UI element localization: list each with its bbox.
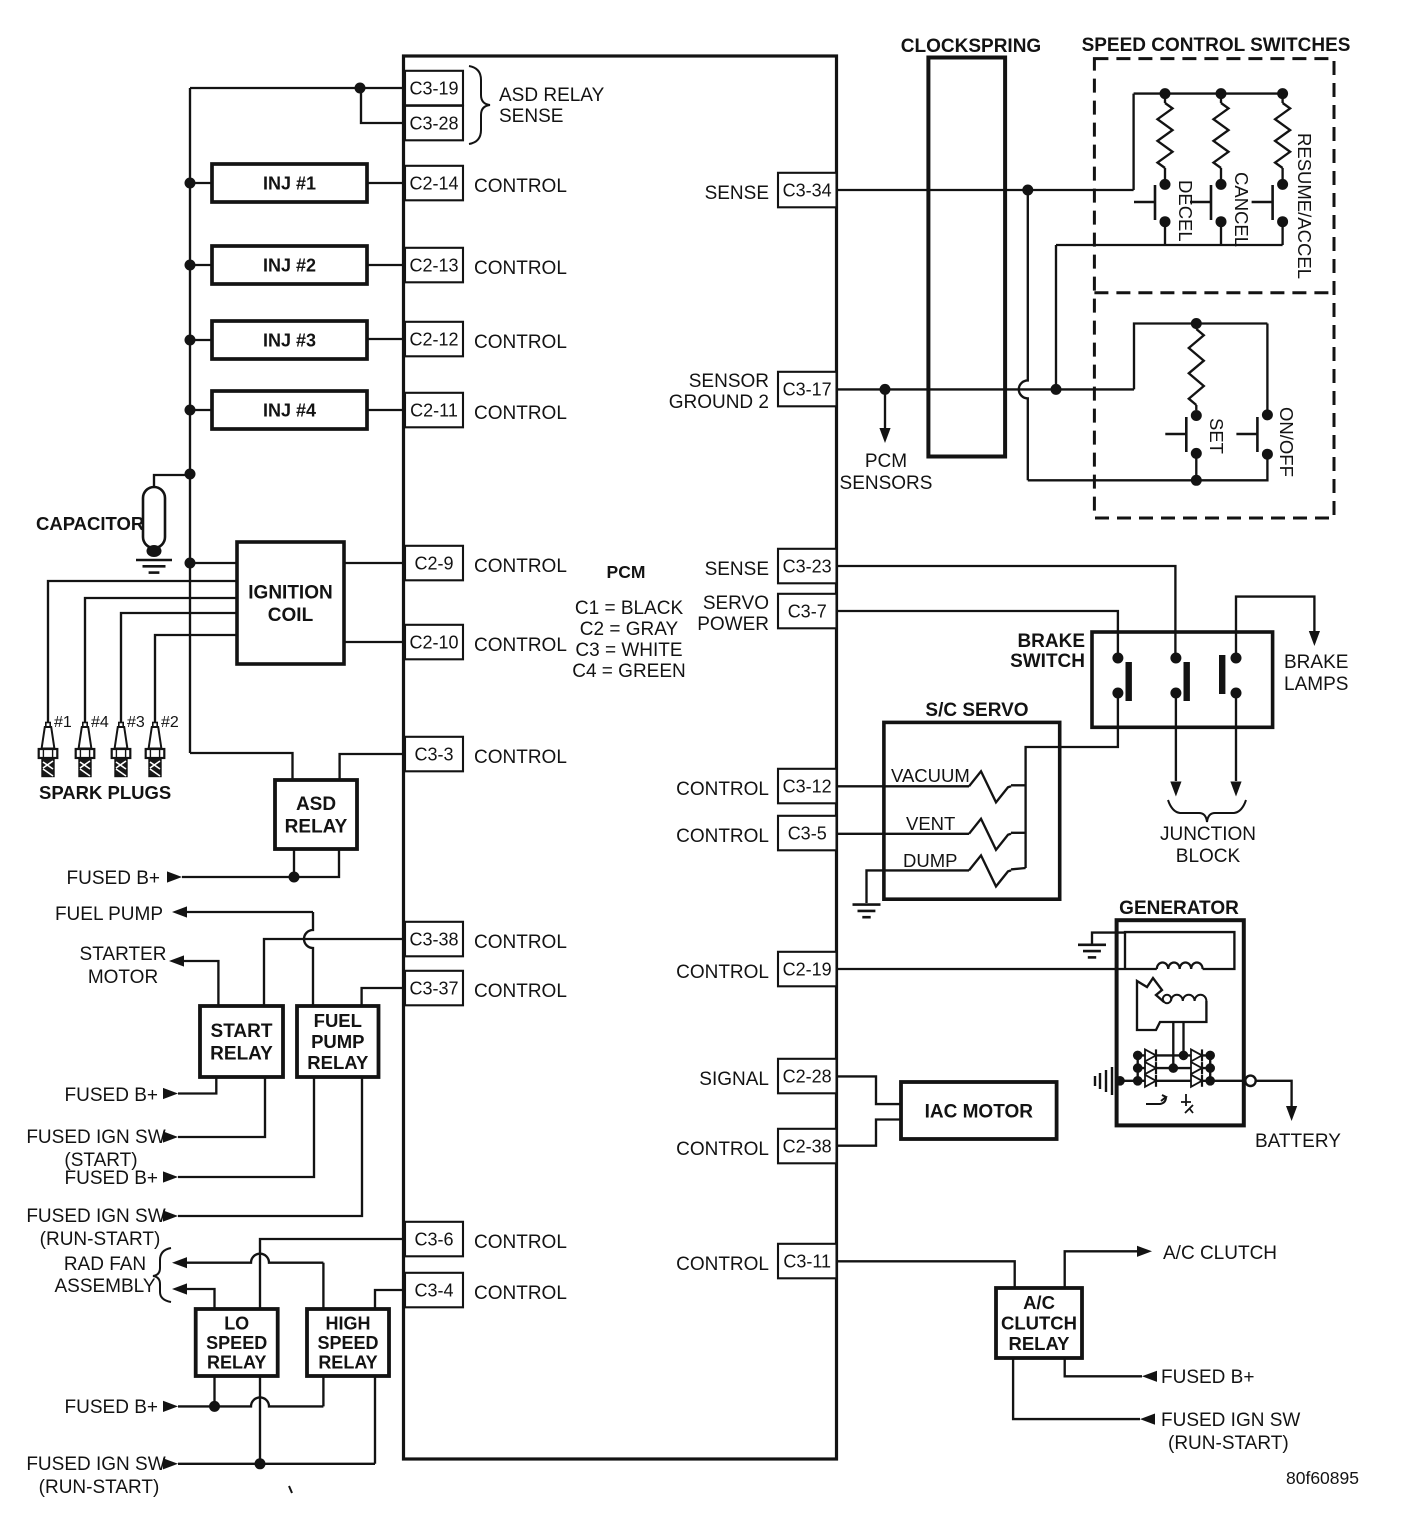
solenoid VENT winding bbox=[969, 819, 1011, 850]
wire DECEL to bottom rail bbox=[1164, 222, 1166, 245]
svg-text:POWER: POWER bbox=[697, 614, 769, 635]
pin C3-7 bbox=[778, 594, 837, 629]
svg-text:MOTOR: MOTOR bbox=[88, 967, 158, 988]
svg-text:C3-19: C3-19 bbox=[409, 78, 458, 98]
svg-text:RAD FAN: RAD FAN bbox=[64, 1254, 146, 1275]
arrow fused B+ A/C relay bbox=[1142, 1371, 1157, 1382]
node DECEL switch bottom bbox=[1160, 216, 1171, 227]
svg-text:STARTER: STARTER bbox=[80, 944, 167, 965]
brake switch pole 1 bbox=[1112, 653, 1132, 702]
wire INJ #2 to pin bbox=[367, 264, 405, 266]
wire fused ign sw run-start feed lower bbox=[178, 1463, 375, 1465]
brush symbol bbox=[1181, 1094, 1193, 1113]
label STARTER MOTOR bbox=[80, 944, 167, 988]
svg-text:FUEL: FUEL bbox=[314, 1010, 362, 1031]
node bus tap for INJ #2 bbox=[185, 260, 196, 271]
relay FUEL PUMP bbox=[297, 1006, 379, 1077]
injector INJ #3 bbox=[212, 321, 367, 359]
wire fused B+ to start relay bbox=[178, 1077, 216, 1094]
wire lo speed relay to fused B+ bbox=[213, 1376, 215, 1406]
svg-text:SENSOR: SENSOR bbox=[689, 371, 769, 392]
svg-text:SPEED: SPEED bbox=[206, 1333, 267, 1353]
label BRAKE LAMPS bbox=[1284, 652, 1348, 695]
svg-text:SPARK PLUGS: SPARK PLUGS bbox=[39, 782, 171, 803]
node sense branch bbox=[1022, 185, 1033, 196]
pin C3-19 bbox=[405, 71, 463, 106]
arrow to battery bbox=[1286, 1106, 1297, 1121]
svg-text:C2-19: C2-19 bbox=[783, 959, 832, 979]
wire brake switch pole1 to servo rail bbox=[1026, 693, 1118, 868]
pin C3-38 bbox=[405, 922, 463, 957]
svg-text:FUSED IGN SW: FUSED IGN SW bbox=[26, 1454, 165, 1475]
svg-text:CONTROL: CONTROL bbox=[474, 176, 567, 197]
wire coil tower to spark plug #3 bbox=[121, 613, 237, 722]
svg-text:SENSORS: SENSORS bbox=[840, 473, 933, 494]
spark plug #1 bbox=[39, 723, 58, 777]
svg-text:C3-17: C3-17 bbox=[783, 379, 832, 399]
svg-text:C2-14: C2-14 bbox=[409, 173, 458, 193]
relay A/C CLUTCH bbox=[996, 1288, 1082, 1358]
wire regulator to bridge row2 bbox=[1172, 1022, 1174, 1068]
svg-text:FUSED IGN SW: FUSED IGN SW bbox=[26, 1206, 165, 1227]
node bus tap for INJ #3 bbox=[185, 335, 196, 346]
wire resistor top rail bbox=[1134, 92, 1283, 94]
nodes rectifier bridge bbox=[1115, 1051, 1215, 1086]
svg-text:C2-28: C2-28 bbox=[783, 1066, 832, 1086]
node cancel rail tap bbox=[1216, 88, 1227, 99]
label FUSED IGN SW (RUN-START) bbox=[1161, 1410, 1300, 1454]
wire C3-37 to fuel pump relay bbox=[362, 988, 405, 1006]
svg-text:80f60895: 80f60895 bbox=[1286, 1468, 1359, 1488]
svg-text:SWITCH: SWITCH bbox=[1010, 651, 1085, 672]
svg-text:SERVO: SERVO bbox=[703, 593, 769, 614]
wire sense drop to set/onoff rail bbox=[1019, 190, 1028, 480]
label RAD FAN ASSEMBLY bbox=[54, 1254, 155, 1297]
wire relay to A/C clutch output bbox=[1065, 1251, 1137, 1288]
wire C3-3 to ASD relay bbox=[340, 754, 405, 780]
node decel rail tap bbox=[1160, 88, 1171, 99]
svg-text:C3-6: C3-6 bbox=[414, 1229, 453, 1249]
svg-text:CONTROL: CONTROL bbox=[474, 332, 567, 353]
node SET resistor bottom bbox=[1191, 410, 1202, 421]
arrow fused B+ feed bbox=[167, 871, 182, 882]
solenoid DUMP winding bbox=[969, 855, 1011, 886]
arrow A/C clutch output bbox=[1137, 1246, 1152, 1257]
wire bus to INJ #2 bbox=[190, 264, 212, 266]
svg-text:CONTROL: CONTROL bbox=[676, 779, 769, 800]
wire C2-28 to IAC motor bbox=[837, 1076, 902, 1104]
wire C3-12 to vacuum solenoid bbox=[837, 785, 970, 787]
svg-text:BATTERY: BATTERY bbox=[1255, 1131, 1341, 1152]
spark plug #2 bbox=[146, 723, 165, 777]
svg-text:SPEED: SPEED bbox=[317, 1333, 378, 1353]
diode pair row 2 bbox=[1145, 1062, 1202, 1074]
spark plug #3 bbox=[112, 723, 131, 777]
wire bus to INJ #3 bbox=[190, 339, 212, 341]
wire to on/off switch top bbox=[1266, 324, 1268, 415]
pin C2-11 bbox=[405, 393, 463, 428]
wire rail to on/off switch bbox=[1196, 454, 1267, 480]
svg-text:#3: #3 bbox=[127, 714, 145, 731]
voltage regulator bbox=[1137, 978, 1164, 1013]
svg-text:C2-12: C2-12 bbox=[409, 329, 458, 349]
wire ASD relay second leg bbox=[294, 849, 339, 877]
node decel bottom rail junction bbox=[1051, 384, 1062, 395]
svg-text:CLOCKSPRING: CLOCKSPRING bbox=[901, 36, 1041, 57]
svg-text:PCM: PCM bbox=[607, 562, 646, 582]
svg-text:BLOCK: BLOCK bbox=[1176, 846, 1241, 867]
wire C2-38 to IAC motor bbox=[837, 1120, 902, 1146]
svg-text:RELAY: RELAY bbox=[285, 817, 348, 838]
svg-text:CONTROL: CONTROL bbox=[474, 635, 567, 656]
wire CANCEL to bottom rail bbox=[1220, 222, 1222, 245]
wire relay to fused B+ bbox=[1065, 1358, 1142, 1376]
svg-text:A/C: A/C bbox=[1023, 1292, 1055, 1313]
svg-text:(RUN-START): (RUN-START) bbox=[1168, 1433, 1289, 1454]
svg-text:DECEL: DECEL bbox=[1175, 180, 1196, 242]
node DECEL resistor bottom bbox=[1160, 179, 1171, 190]
wire fused B+ to fuel pump relay bbox=[178, 1077, 314, 1177]
wire relay to fused ign sw bbox=[1013, 1358, 1140, 1419]
arrow fused ign sw A/C relay bbox=[1140, 1414, 1155, 1425]
svg-text:INJ #2: INJ #2 bbox=[263, 256, 316, 276]
wire coil tower to spark plug #2 bbox=[155, 635, 237, 722]
arrow to brake lamps bbox=[1309, 631, 1320, 646]
wire riser to decel/cancel/resume bottoms bbox=[1055, 245, 1057, 389]
svg-text:ASSEMBLY: ASSEMBLY bbox=[54, 1276, 155, 1297]
pin C2-28 bbox=[778, 1059, 837, 1094]
svg-text:SENSE: SENSE bbox=[499, 106, 563, 127]
wire bus to INJ #4 bbox=[190, 409, 212, 411]
svg-text:RELAY: RELAY bbox=[210, 1044, 273, 1065]
node junction at C3-19 branch bbox=[355, 83, 366, 94]
pin C3-5 bbox=[778, 816, 837, 851]
svg-text:SENSE: SENSE bbox=[705, 559, 769, 580]
wire decel/cancel/resume bottom rail bbox=[1056, 244, 1283, 246]
svg-text:SENSE: SENSE bbox=[705, 183, 769, 204]
wire INJ #4 to pin bbox=[367, 409, 405, 411]
svg-text:CONTROL: CONTROL bbox=[474, 981, 567, 1002]
wire ASD relay to fused B+ node bbox=[293, 849, 295, 877]
svg-text:C3-5: C3-5 bbox=[788, 823, 827, 843]
svg-text:CAPACITOR: CAPACITOR bbox=[36, 513, 144, 534]
wire C3-23 sense to brake switch bbox=[837, 566, 1176, 658]
node bus tap for INJ #4 bbox=[185, 405, 196, 416]
svg-text:RELAY: RELAY bbox=[1008, 1333, 1070, 1354]
pin C2-10 bbox=[405, 625, 463, 660]
wire rad fan output lower bbox=[187, 1289, 215, 1309]
wire coil tower to spark plug #4 bbox=[85, 598, 237, 722]
wire starter motor output bbox=[184, 961, 218, 1006]
svg-text:LO: LO bbox=[224, 1314, 249, 1334]
wire fused ign sw start to start relay bbox=[178, 1077, 265, 1137]
svg-text:PUMP: PUMP bbox=[311, 1031, 364, 1052]
wire bus to INJ #1 bbox=[190, 182, 212, 184]
resistor CANCEL bbox=[1220, 94, 1222, 103]
svg-text:C3-28: C3-28 bbox=[409, 113, 458, 133]
capacitor C1 bbox=[143, 487, 165, 557]
wire ASD sense feed to C3-19 bbox=[190, 87, 405, 89]
svg-text:C3-12: C3-12 bbox=[783, 776, 832, 796]
node RESUME/ACCEL resistor bottom bbox=[1277, 179, 1288, 190]
arrow fused B+ lower bbox=[163, 1401, 178, 1412]
pin C3-17 bbox=[778, 372, 837, 407]
svg-text:VACUUM: VACUUM bbox=[891, 765, 970, 786]
node ON/OFF top bbox=[1262, 409, 1273, 420]
svg-text:INJ #4: INJ #4 bbox=[263, 401, 316, 421]
svg-text:SIGNAL: SIGNAL bbox=[699, 1069, 769, 1090]
label JUNCTION BLOCK bbox=[1160, 824, 1256, 867]
injector INJ #4 bbox=[212, 391, 367, 429]
svg-text:GENERATOR: GENERATOR bbox=[1119, 898, 1239, 919]
label FUSED IGN SW (START) bbox=[26, 1127, 165, 1171]
svg-text:GROUND 2: GROUND 2 bbox=[669, 392, 769, 413]
resistor RESUME/ACCEL bbox=[1281, 94, 1283, 103]
generator output terminal bbox=[1245, 1076, 1255, 1086]
wire C3-34 sense to switches bbox=[837, 189, 1134, 191]
svg-text:C3-11: C3-11 bbox=[783, 1251, 831, 1271]
pin C3-6 bbox=[405, 1222, 463, 1257]
arrow fused ign sw lower bbox=[163, 1458, 178, 1469]
svg-text:CONTROL: CONTROL bbox=[474, 747, 567, 768]
node set switch rail junction bbox=[1191, 475, 1202, 486]
node bus tap for INJ #1 bbox=[185, 178, 196, 189]
pin C2-38 bbox=[778, 1129, 837, 1164]
switch CANCEL bbox=[1190, 185, 1211, 220]
pin C3-12 bbox=[778, 769, 837, 804]
wire C3-5 to vent solenoid bbox=[837, 833, 970, 835]
wire C3-6 to lo speed relay bbox=[260, 1239, 405, 1309]
wire branch to C3-28 bbox=[361, 88, 405, 123]
svg-text:C3-37: C3-37 bbox=[409, 978, 458, 998]
wire dump solenoid to ground bbox=[867, 870, 970, 903]
svg-text:ASD: ASD bbox=[296, 794, 336, 815]
svg-text:START: START bbox=[211, 1021, 273, 1042]
arrow junction block 1 bbox=[1170, 782, 1181, 797]
label FUSED IGN SW (RUN-START) bbox=[26, 1454, 165, 1498]
switch ON/OFF bbox=[1236, 417, 1257, 452]
inductor field coil bbox=[1157, 962, 1203, 969]
node PCM sensors tap bbox=[880, 384, 891, 395]
svg-text:#2: #2 bbox=[161, 714, 179, 731]
svg-text:C2-10: C2-10 bbox=[409, 632, 458, 652]
node CANCEL resistor bottom bbox=[1216, 179, 1227, 190]
brake switch pole 3 bbox=[1219, 653, 1242, 699]
speed control switches divider bbox=[1094, 291, 1334, 294]
relay ASD bbox=[275, 780, 357, 849]
arrow fuel pump output bbox=[172, 906, 187, 917]
svg-text:FUSED IGN SW: FUSED IGN SW bbox=[1161, 1410, 1300, 1431]
svg-text:CONTROL: CONTROL bbox=[474, 556, 567, 577]
svg-text:ON/OFF: ON/OFF bbox=[1276, 407, 1297, 477]
svg-text:CONTROL: CONTROL bbox=[474, 932, 567, 953]
pin C2-19 bbox=[778, 952, 837, 987]
wire sensor ground riser to set resistor bbox=[1134, 324, 1267, 390]
svg-text:FUSED B+: FUSED B+ bbox=[65, 1168, 158, 1189]
pin C2-12 bbox=[405, 322, 463, 357]
svg-text:CONTROL: CONTROL bbox=[474, 1232, 567, 1253]
wire generator ground bbox=[1092, 933, 1125, 945]
rectifier bridge rails bbox=[1117, 1055, 1211, 1080]
wire capacitor to bus bbox=[154, 475, 190, 489]
svg-text:BRAKE: BRAKE bbox=[1017, 631, 1085, 652]
wire C3-7 servo power to brake switch bbox=[837, 611, 1118, 658]
svg-text:FUSED B+: FUSED B+ bbox=[67, 868, 160, 889]
S/C servo box bbox=[884, 722, 1060, 899]
svg-text:INJ #1: INJ #1 bbox=[263, 174, 316, 194]
brake switch pole 2 bbox=[1170, 653, 1190, 702]
svg-text:FUSED B+: FUSED B+ bbox=[1161, 1367, 1254, 1388]
pin C3-11 bbox=[778, 1244, 837, 1279]
wire rad fan output upper bbox=[187, 1254, 323, 1263]
svg-text:RESUME/ACCEL: RESUME/ACCEL bbox=[1294, 133, 1315, 279]
brake switch box bbox=[1092, 632, 1273, 727]
wire terminal to battery bbox=[1256, 1081, 1292, 1106]
arrow rad fan lower bbox=[172, 1283, 187, 1294]
wire C2-19 to field winding bbox=[837, 968, 1126, 970]
pin C3-37 bbox=[405, 971, 463, 1006]
node fused B+ junction bbox=[289, 872, 300, 883]
wire ignition coil to C2-9 bbox=[344, 562, 405, 564]
wire fuel pump output bbox=[304, 912, 313, 1006]
PCM module box bbox=[404, 56, 837, 1459]
pin C3-34 bbox=[778, 173, 837, 208]
svg-text:CLUTCH: CLUTCH bbox=[1001, 1313, 1077, 1334]
rotor symbol bbox=[1146, 1095, 1166, 1104]
svg-text:C3-34: C3-34 bbox=[783, 180, 832, 200]
wire coil tower to spark plug #1 bbox=[48, 581, 237, 722]
label PCM SENSORS bbox=[840, 451, 933, 494]
svg-text:LAMPS: LAMPS bbox=[1284, 674, 1348, 695]
svg-text:RELAY: RELAY bbox=[307, 1052, 369, 1073]
wire bus to ASD relay bbox=[190, 753, 293, 780]
resistor SET bbox=[1189, 329, 1204, 405]
svg-text:VENT: VENT bbox=[906, 813, 955, 834]
generator box bbox=[1117, 920, 1244, 1125]
svg-text:IAC MOTOR: IAC MOTOR bbox=[925, 1101, 1034, 1122]
ground for dump solenoid bbox=[853, 903, 881, 906]
svg-text:#1: #1 bbox=[54, 714, 72, 731]
wire C3-17 sensor ground bbox=[837, 388, 1135, 390]
injector INJ #2 bbox=[212, 246, 367, 284]
IAC motor bbox=[901, 1082, 1057, 1139]
svg-text:A/C CLUTCH: A/C CLUTCH bbox=[1163, 1243, 1277, 1264]
ground for generator field bbox=[1078, 943, 1106, 946]
wire SET bottom stub bbox=[1195, 453, 1197, 480]
relay LO SPEED bbox=[196, 1309, 278, 1376]
node RESUME/ACCEL switch bottom bbox=[1277, 216, 1288, 227]
pin C2-14 bbox=[405, 166, 463, 201]
relay HIGH SPEED bbox=[307, 1309, 389, 1376]
wire RESUME/ACCEL to bottom rail bbox=[1281, 222, 1283, 245]
spark plug #4 bbox=[76, 723, 95, 777]
svg-text:INJ #3: INJ #3 bbox=[263, 331, 316, 351]
label ASD RELAY SENSE bbox=[499, 85, 605, 127]
svg-text:C3-38: C3-38 bbox=[409, 929, 458, 949]
svg-text:C4 = GREEN: C4 = GREEN bbox=[572, 661, 686, 682]
svg-text:C3-23: C3-23 bbox=[783, 556, 832, 576]
wire PCM sensors arrow bbox=[884, 389, 886, 428]
wire ignition coil to C2-10 bbox=[344, 641, 405, 643]
svg-text:SET: SET bbox=[1206, 418, 1227, 454]
relay START bbox=[200, 1006, 283, 1077]
svg-text:CONTROL: CONTROL bbox=[676, 1254, 769, 1275]
pin C2-13 bbox=[405, 248, 463, 282]
node fused B+ lower junction bbox=[209, 1401, 220, 1412]
svg-text:(RUN-START): (RUN-START) bbox=[39, 1477, 160, 1498]
svg-text:JUNCTION: JUNCTION bbox=[1160, 824, 1256, 845]
wire INJ #1 to pin bbox=[367, 182, 405, 184]
switch RESUME/ACCEL bbox=[1252, 185, 1273, 220]
wire bus to ignition coil bbox=[190, 562, 237, 564]
svg-text:RELAY: RELAY bbox=[318, 1353, 377, 1373]
switch DECEL bbox=[1134, 185, 1155, 220]
wire INJ #3 to pin bbox=[367, 338, 405, 340]
clockspring box bbox=[928, 58, 1005, 457]
speed control switches dashed box bbox=[1094, 59, 1334, 518]
ground below capacitor bbox=[136, 559, 172, 562]
svg-text:S/C SERVO: S/C SERVO bbox=[925, 700, 1028, 721]
svg-text:CONTROL: CONTROL bbox=[474, 403, 567, 424]
generator field winding loop bbox=[1125, 932, 1234, 969]
svg-text:PCM: PCM bbox=[865, 451, 907, 472]
diode pair row 1 bbox=[1145, 1049, 1202, 1061]
pin C3-4 bbox=[405, 1273, 463, 1308]
arrow starter motor output bbox=[169, 955, 184, 966]
arrow junction block 2 bbox=[1230, 782, 1241, 797]
svg-text:CONTROL: CONTROL bbox=[676, 962, 769, 983]
node resume rail tap bbox=[1277, 88, 1288, 99]
svg-text:DUMP: DUMP bbox=[903, 850, 957, 871]
resistor DECEL bbox=[1164, 94, 1166, 103]
svg-text:C1 = BLACK: C1 = BLACK bbox=[575, 598, 684, 619]
arrow rad fan upper bbox=[172, 1257, 187, 1268]
node bus tap for capacitor bbox=[185, 469, 196, 480]
node fused ign sw junction bbox=[255, 1458, 266, 1469]
arrow fused ign sw run-start bbox=[163, 1210, 178, 1221]
svg-text:IGNITION: IGNITION bbox=[248, 583, 332, 604]
wire junction block feed 2 bbox=[1235, 693, 1237, 781]
brace junction block bbox=[1168, 800, 1246, 822]
svg-text:C3-4: C3-4 bbox=[414, 1280, 453, 1300]
PCM connector color legend bbox=[572, 598, 686, 682]
svg-text:C3-7: C3-7 bbox=[788, 601, 827, 621]
svg-text:FUEL PUMP: FUEL PUMP bbox=[55, 904, 163, 925]
wire junction block feed 1 bbox=[1175, 693, 1177, 781]
svg-text:C3-3: C3-3 bbox=[414, 744, 453, 764]
svg-text:CONTROL: CONTROL bbox=[676, 826, 769, 847]
ignition coil bbox=[237, 542, 344, 664]
label FUSED IGN SW (RUN-START) bbox=[26, 1206, 165, 1250]
svg-text:CONTROL: CONTROL bbox=[474, 1283, 567, 1304]
wire fused B+ feed to ASD relay bbox=[182, 876, 294, 878]
wire fused B+ feed lower bbox=[178, 1397, 323, 1406]
svg-text:FUSED B+: FUSED B+ bbox=[65, 1397, 158, 1418]
label SERVO POWER for C3-7 bbox=[697, 593, 769, 635]
wire C3-11 to A/C clutch relay bbox=[837, 1261, 1015, 1288]
svg-text:COIL: COIL bbox=[268, 605, 314, 626]
brace for ASD relay sense pins bbox=[469, 66, 490, 144]
svg-text:RELAY: RELAY bbox=[207, 1353, 266, 1373]
wire regulator to bridge row1 bbox=[1182, 1022, 1184, 1055]
svg-text:C2-9: C2-9 bbox=[414, 553, 453, 573]
svg-text:CONTROL: CONTROL bbox=[676, 1139, 769, 1160]
pin C3-28 bbox=[405, 106, 463, 141]
svg-text:(RUN-START): (RUN-START) bbox=[40, 1229, 161, 1250]
wire fused ign sw run-start to fuel pump relay bbox=[178, 1077, 362, 1216]
svg-text:C2-13: C2-13 bbox=[409, 255, 458, 275]
wire C3-38 to start relay bbox=[264, 939, 405, 1006]
